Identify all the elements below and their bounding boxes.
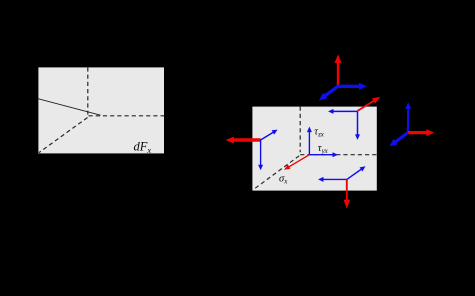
arrow tau (blue left, bottom face) (318, 177, 347, 182)
wire: hidden horizontal edge (dashed), left box (89, 115, 165, 117)
arrow sigma_x (red down-left, center) (284, 155, 309, 170)
arrow tau (blue up-right, left face) (261, 130, 278, 140)
arrow sigma (red left, left face) (226, 137, 261, 144)
arrow tau_yx (blue right, center) (309, 152, 338, 157)
arrow tau (blue left, top face) (328, 109, 358, 114)
arrow tau (blue down, left face) (258, 140, 263, 170)
arrow blue up, right triad (405, 102, 411, 132)
arrow blue right, top triad (338, 83, 367, 90)
right box: stress element face (252, 107, 376, 191)
left box: cut body face with force dFx (38, 67, 164, 153)
arrow sigma (red down, bottom face) (344, 179, 351, 208)
wire: hidden vertical edge (dashed), left box (87, 67, 89, 114)
arrow sigma (red up-right, top face) (358, 97, 381, 111)
arrow tau (blue down, top face) (355, 111, 360, 139)
wire: hidden horizontal edge (dashed), right box (300, 154, 377, 156)
arrow red up, top triad (335, 54, 342, 86)
arrow red right, right triad (408, 129, 434, 136)
wire: hidden diagonal edge (dashed), right box (253, 156, 299, 190)
arrow tau (blue up-right, bottom face) (347, 166, 366, 179)
wire: solid force line, left box (38, 99, 100, 115)
wire: hidden diagonal edge (dashed), left box (39, 118, 88, 153)
wire: hidden vertical edge (dashed), right box (299, 107, 301, 153)
arrow tau_zx (blue up, center) (307, 127, 312, 155)
arrow blue down-left, right triad (389, 133, 408, 147)
arrow blue down-left, top triad (319, 86, 338, 100)
